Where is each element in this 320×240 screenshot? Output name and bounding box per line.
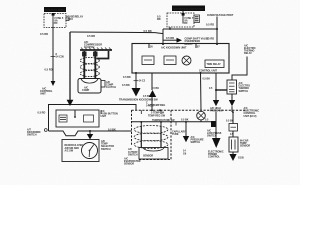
label capillary right [172,131,186,137]
label 0.5 RD [206,22,214,26]
wire from fuse 1 down [52,28,54,82]
label COMPRESSOR CONTROL RELAY [185,38,209,46]
ground ref below pressure switch arrow [183,150,187,156]
label A/C COMPRESSOR CLUTCH [84,41,102,49]
wire x200 from box to telltale [200,72,202,110]
wire below ETR box to ground [232,152,234,154]
bottom wire with connector dip [49,131,132,136]
label below arrow x216 [210,107,223,113]
coil loop 2 [80,64,99,70]
label 0.5 RD [40,32,48,36]
top pin 87 [196,44,200,49]
temperature dial box [62,140,99,162]
compressor body [78,79,101,94]
wire left branch down to push button unit [69,32,71,101]
evaporator coil 2 [134,133,168,141]
wire from top text to relay box1 [232,57,247,81]
coil loop 1 [80,57,99,63]
blower motor box [139,148,168,160]
header HOT AT ALL TIMES [44,7,66,12]
arrow up into box [149,90,156,110]
label below evaporator [124,157,141,165]
label 0.5 BK above rail [181,118,189,121]
label 0.5 BK left [226,120,234,123]
rail pin ticks [140,121,176,126]
header HOT IN RUN [172,6,205,12]
label OVERVOLTAGE PROT [207,14,234,17]
ground stub at corner [44,129,47,132]
pin ticks below dashed rail [141,110,165,117]
arrow to A/C control [51,81,56,86]
label electronic power control [208,150,224,158]
arrow transmission kickdown [132,88,141,97]
motor symbol circle [182,56,191,65]
evaporator lead 1 [140,126,142,148]
label inside top [161,46,187,49]
label below splice [207,129,222,137]
label right of relay box1 [239,82,251,93]
label G at bottom [238,157,245,160]
solid rail [132,121,212,123]
clutch pin 1 [83,52,87,56]
label 0.5 RD on branch [166,36,174,40]
compressor side terminal [101,81,105,88]
wire overvoltage relay down [216,17,218,45]
junction dot on dashed rail [151,109,161,111]
label 0.5 BK [123,76,131,79]
label beside terminal [106,81,116,89]
label G ground left [27,128,41,136]
label 0.5 [230,133,234,136]
arrow below box1 [229,94,235,112]
switch contact tick [74,110,76,118]
top pin 30 [149,44,153,49]
label 0.5 RD lower [45,68,53,72]
splice square [211,121,217,127]
label 0.5 BK [108,128,116,131]
switch block 2 [84,115,94,122]
ground arrow x233 [229,154,236,161]
label 0.5 BK left of x216 [205,118,209,121]
clutch pin 2 [94,52,98,56]
label 0.5 BK lower [122,84,130,87]
telltale circle symbol [197,111,206,122]
evaporator assembly dashed box [132,110,172,159]
pin wire x136 transmission kickdown [135,72,137,88]
label right of dial box [101,140,114,151]
wire left unit: up-over from corner [49,105,137,132]
label TRANSMISSION KICKDOWN [119,99,158,102]
label left of fuse box 2 [157,15,161,21]
evaporator coil 3 [134,141,168,149]
fuse F1 [52,13,64,28]
stub to relay box1 [215,89,227,91]
arrow into push button feed [67,100,74,106]
wire x216 from box down [215,73,217,100]
label on solid rail [152,119,175,122]
evaporator lead 2 [160,126,162,148]
relay contact 1 [142,56,154,65]
ground arrow x216 [212,138,221,148]
label 0.5 RD near junction [144,29,152,33]
labels right of ETR box [240,139,250,147]
fuse 2 output pin [169,27,171,30]
pressure switch arrow [183,136,189,142]
ETR switch box [229,131,238,152]
label at rail end [244,107,260,118]
connector tick C30 [51,53,65,59]
connector tick C142 [134,80,146,83]
relay box1 [227,80,237,94]
connector box [229,124,238,132]
clutch ground jumper [97,51,109,59]
wire from rail down to control unit [162,29,218,45]
arrow x216 [213,100,219,106]
label above evap box [151,111,165,114]
label far right of dial [128,148,138,156]
pin x233 on rail [232,111,234,123]
pressure switch wire [185,121,187,136]
fuse F2 [182,11,194,24]
clutch coil lead 1 [83,51,85,79]
label above dashed rail [148,104,165,107]
pin tick right [100,110,102,114]
label above stub [209,87,213,90]
label connector [146,101,154,107]
wire rail y29 [163,28,218,30]
label 0.5 BK [203,78,211,81]
relay contact 2 [164,56,176,65]
long wire from left [70,32,163,34]
label below block [199,69,218,72]
label 0.5 RD [206,36,214,40]
fuse box 2 (dashed) [167,13,194,27]
label pressure switch [191,136,205,144]
label 0.5 RD mid [87,34,95,38]
label inside dial box [65,144,84,152]
clutch coil lead 2 [94,51,96,79]
label destination A/C [40,87,53,95]
label 0.5 RD [38,111,46,114]
label 0.5 BK left of arrow [143,95,151,98]
push button unit box [56,110,99,127]
switch block 1 [59,115,67,122]
connector tab fuse box 2 [194,15,200,23]
dial circle [82,143,98,159]
label above arrow [152,87,160,90]
fuse box 1 (dashed) [44,14,66,28]
wire drop to temp dial [87,131,93,140]
clutch hatched bar [80,48,112,51]
label FUSE/RELAY BOX [68,15,84,21]
coil loop 3 [80,70,99,76]
branch arrow to compressor relay [163,38,182,43]
junction dot [89,130,91,132]
text block top right [244,44,256,55]
connector tab fuse box 1 [66,17,69,21]
internal block [205,60,224,68]
pin wire x152 from box [151,73,153,90]
label A/C PUSH BUTTON [101,110,118,118]
dashed rail [132,109,248,111]
wire x216 continues to ground [215,112,217,138]
scan noise texture [0,0,1,1]
A/C compressor control unit box [132,44,229,74]
evaporator coil 1 [134,126,168,134]
